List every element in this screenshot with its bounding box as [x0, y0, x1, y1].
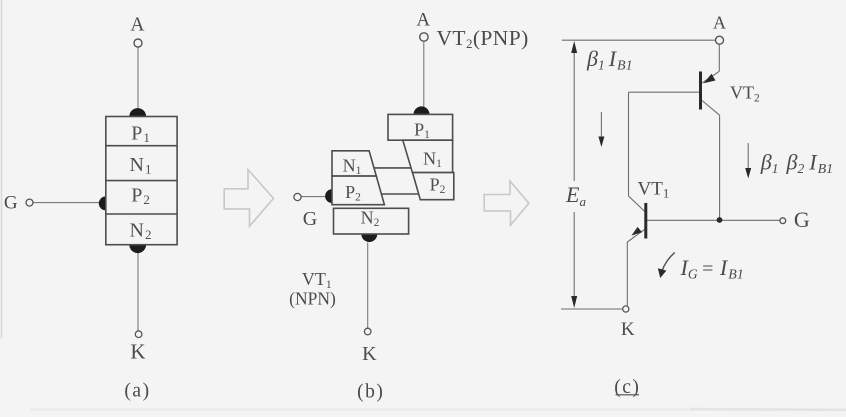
svg-text:(b): (b) [357, 382, 384, 403]
svg-text:A: A [713, 13, 726, 33]
svg-text:(a): (a) [124, 380, 150, 401]
svg-text:K: K [621, 319, 635, 340]
svg-text:G: G [303, 208, 317, 230]
svg-text:A: A [416, 10, 430, 31]
svg-text:G: G [4, 193, 18, 214]
svg-text:A: A [130, 15, 144, 36]
svg-text:G: G [794, 207, 810, 232]
svg-text:K: K [362, 343, 377, 365]
svg-text:(NPN): (NPN) [289, 289, 336, 309]
svg-text:VT2(PNP): VT2(PNP) [437, 26, 529, 51]
svg-text:K: K [130, 339, 145, 363]
